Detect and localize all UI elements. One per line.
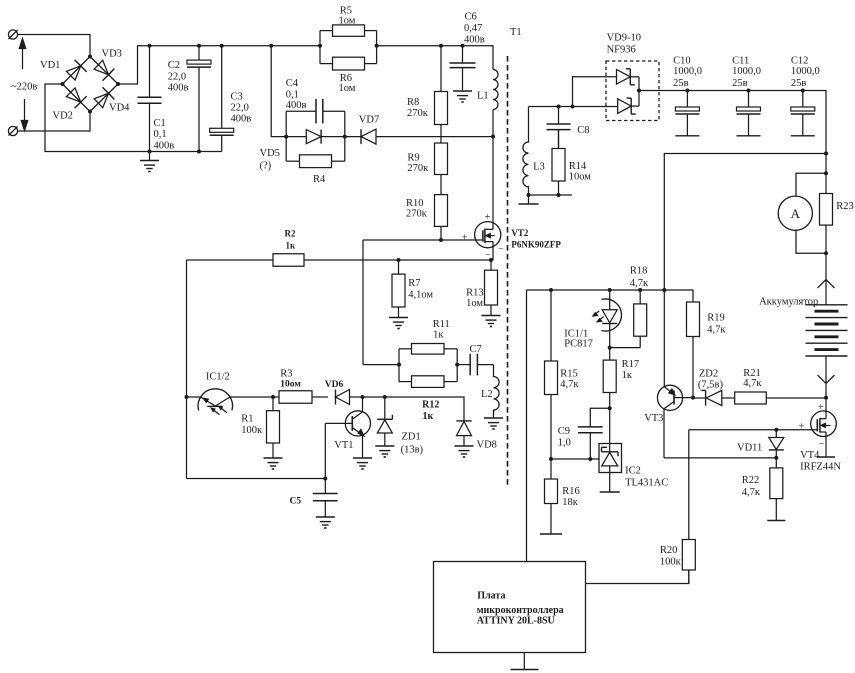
- node R10 bottom gate: [439, 238, 443, 242]
- label T1: [510, 27, 522, 38]
- svg-text:C8: C8: [577, 125, 589, 136]
- svg-text:22,0: 22,0: [231, 103, 249, 114]
- wire ZD1 node to VD8: [385, 397, 464, 421]
- label R2: [285, 229, 296, 239]
- wire L1 bottom to drain: [492, 110, 494, 223]
- svg-text:IRFZ44N: IRFZ44N: [800, 462, 841, 473]
- svg-text:R22: R22: [742, 475, 760, 486]
- node C3 top: [220, 44, 224, 48]
- svg-text:ATTINY 20L-8SU: ATTINY 20L-8SU: [477, 616, 555, 627]
- label VT2 minus source: [498, 244, 504, 255]
- resistor R15: [545, 290, 558, 459]
- ground at R1: [264, 458, 283, 470]
- node R5R6 left: [318, 44, 322, 48]
- wire secondary plus rail: [639, 91, 826, 154]
- node rail snubber tap: [269, 44, 273, 48]
- label VD7: [359, 115, 379, 126]
- resistor R7: [392, 260, 405, 317]
- node R8 top rail: [439, 44, 443, 48]
- label MCU line1: [477, 591, 505, 602]
- svg-text:400в: 400в: [168, 83, 189, 94]
- label IC1/1: [564, 329, 588, 340]
- label R8 value: [407, 108, 429, 119]
- svg-text:ZD1: ZD1: [402, 432, 421, 443]
- node bridge left: [61, 82, 65, 86]
- node L1 snubber junction: [491, 135, 495, 139]
- label C9 value: [558, 438, 571, 449]
- ammeter A: [778, 173, 826, 253]
- node meter bottom: [824, 251, 828, 255]
- svg-text:NF936: NF936: [607, 45, 636, 56]
- wire gate VT2: [363, 239, 483, 241]
- node VT1 collector: [361, 395, 365, 399]
- label MCU line2: [477, 605, 564, 616]
- node ZD1 top: [383, 395, 387, 399]
- label R1 value: [241, 425, 263, 436]
- svg-text:1к: 1к: [286, 241, 297, 251]
- svg-text:R10: R10: [406, 198, 424, 209]
- svg-text:4,7к: 4,7к: [743, 378, 762, 389]
- resistor R1: [267, 397, 280, 458]
- label R16: [562, 486, 580, 497]
- svg-text:A: A: [791, 206, 801, 221]
- label C1 value: [154, 129, 167, 140]
- label R22: [742, 475, 760, 486]
- arrow up (AC polarity): [19, 39, 25, 70]
- diode VD3: [94, 60, 114, 80]
- wire VD7 to L1 node: [376, 136, 493, 138]
- label C10: [673, 56, 691, 67]
- wire R18 bottom to LED node: [610, 347, 641, 349]
- node C12 rail: [801, 89, 805, 93]
- label C3 value: [231, 103, 249, 114]
- terminal bar L3 ground: [519, 195, 539, 204]
- svg-text:L1: L1: [477, 91, 489, 102]
- node VT2 source R13: [489, 258, 493, 262]
- label ~220v: [11, 82, 37, 93]
- svg-text:1000,0: 1000,0: [732, 66, 761, 77]
- node rail LED: [608, 288, 612, 292]
- label C11 value: [732, 66, 761, 77]
- resistor R17: [603, 348, 616, 409]
- svg-text:(13в): (13в): [401, 445, 424, 456]
- label R5 value: [339, 16, 356, 27]
- ground at L2: [484, 410, 503, 429]
- svg-text:1ом: 1ом: [466, 298, 483, 309]
- svg-text:25в: 25в: [791, 78, 807, 89]
- label C2 voltage: [168, 83, 189, 94]
- svg-text:(7,5в): (7,5в): [698, 380, 724, 391]
- wire top rail right part: [377, 46, 493, 70]
- node VD9-10 cathode: [637, 89, 641, 93]
- svg-text:T1: T1: [510, 27, 522, 38]
- svg-text:IC1/2: IC1/2: [206, 372, 230, 383]
- label R20: [660, 545, 678, 556]
- wire VT4 gate: [689, 429, 818, 431]
- label VD1: [40, 60, 60, 71]
- label R16 value: [562, 497, 579, 508]
- svg-text:C9: C9: [558, 426, 570, 437]
- optocoupler IC1/2 phototransistor: [198, 389, 232, 415]
- svg-text:C12: C12: [791, 56, 809, 67]
- wire gate corner: [362, 240, 364, 365]
- label C1 voltage: [154, 141, 175, 152]
- wire VT4 drain: [825, 398, 827, 412]
- svg-text:VT1: VT1: [334, 440, 353, 451]
- label IC1/2: [206, 372, 230, 383]
- transistor VT2 (MOSFET P6NK90ZFP): [475, 222, 501, 260]
- label VD11: [737, 443, 762, 454]
- node R1 R3: [271, 395, 275, 399]
- svg-text:R23: R23: [836, 201, 854, 212]
- bracket R11-R12 right: [456, 349, 458, 382]
- svg-text:R1: R1: [241, 414, 253, 425]
- label C6 value: [464, 23, 482, 34]
- svg-text:TL431AC: TL431AC: [625, 478, 668, 489]
- label C2 value: [168, 72, 186, 83]
- zener ZD2: [693, 390, 735, 405]
- microcontroller board box: [434, 562, 586, 653]
- svg-text:VD1: VD1: [40, 60, 60, 71]
- svg-text:R14: R14: [569, 161, 587, 172]
- svg-text:10ом: 10ом: [569, 172, 592, 183]
- label C4 voltage: [286, 100, 307, 111]
- ground at C1: [140, 152, 159, 172]
- resistor R11: [399, 344, 457, 355]
- ground at ZD1: [375, 446, 394, 458]
- wire opto to R3 node: [230, 396, 274, 398]
- capacitor C7: [457, 354, 493, 376]
- wire VT1 node to ZD1 node: [363, 396, 385, 398]
- svg-text:10ом: 10ом: [280, 380, 301, 390]
- dashed box VD9-10: [606, 61, 659, 121]
- node snubber right: [343, 135, 347, 139]
- label R20 value: [660, 557, 682, 568]
- capacitor C11: [737, 91, 761, 136]
- label VD8: [477, 440, 497, 451]
- svg-text:0,1: 0,1: [154, 129, 167, 140]
- svg-text:4,7к: 4,7к: [560, 379, 579, 390]
- label C12: [791, 56, 809, 67]
- node bridge right: [116, 82, 120, 86]
- diode VD8: [456, 421, 471, 446]
- label VD5 q: [260, 161, 272, 172]
- label C3: [231, 92, 243, 103]
- node meter top: [824, 171, 828, 175]
- resistor R13: [485, 260, 498, 315]
- label VT4: [800, 450, 820, 461]
- svg-text:1000,0: 1000,0: [791, 66, 820, 77]
- label ZD1 voltage: [401, 445, 424, 456]
- svg-text:1к: 1к: [433, 330, 444, 341]
- node C2 bottom: [197, 150, 201, 154]
- svg-text:C3: C3: [231, 92, 243, 103]
- svg-text:VT3: VT3: [644, 413, 663, 424]
- svg-text:4,1ом: 4,1ом: [408, 290, 433, 301]
- svg-text:C7: C7: [470, 344, 482, 355]
- svg-text:400в: 400в: [464, 35, 485, 46]
- svg-text:400в: 400в: [231, 114, 252, 125]
- bracket R5-R6 right: [376, 31, 378, 64]
- label VT2 type: [511, 240, 561, 250]
- svg-text:100к: 100к: [241, 425, 263, 436]
- label R21 value: [743, 378, 762, 389]
- label R11: [433, 319, 450, 330]
- AC terminal X1 (phase): [8, 30, 17, 39]
- svg-text:−: −: [819, 439, 825, 450]
- label L3: [533, 162, 545, 173]
- label VT2 minus below: [485, 250, 491, 261]
- svg-text:18к: 18к: [562, 497, 579, 508]
- capacitor C8: [547, 107, 571, 149]
- node bridge bottom: [88, 110, 92, 114]
- svg-text:L3: L3: [533, 162, 545, 173]
- resistor R16: [545, 459, 558, 534]
- svg-text:1000,0: 1000,0: [673, 66, 702, 77]
- inductor L3 (T1 secondary): [523, 107, 529, 196]
- svg-text:R17: R17: [622, 359, 640, 370]
- terminal bar R16: [540, 533, 562, 536]
- node VD11 bottom: [774, 456, 778, 460]
- label R1: [241, 414, 253, 425]
- label R10: [406, 198, 424, 209]
- optocoupler IC1/1 LED: [593, 290, 622, 348]
- label R23: [836, 201, 854, 212]
- schottky diode VD9: [617, 69, 640, 91]
- label VD6: [325, 380, 344, 390]
- AC terminal X2 (neutral): [8, 126, 17, 135]
- svg-text:R8: R8: [407, 97, 419, 108]
- diode VD5: [306, 130, 321, 144]
- node L3 bottom: [527, 193, 531, 197]
- svg-text:VT4: VT4: [800, 450, 820, 461]
- resistor R4: [286, 137, 345, 168]
- bridge frame top-right: [90, 57, 118, 85]
- resistor R22: [770, 458, 783, 520]
- ground at C6: [453, 83, 472, 103]
- label C10 voltage: [673, 78, 689, 89]
- svg-text:R20: R20: [660, 545, 678, 556]
- svg-text:VD5: VD5: [260, 148, 280, 159]
- label VD9-10: [607, 33, 641, 44]
- label R12 value: [423, 411, 434, 422]
- svg-text:R19: R19: [707, 313, 725, 324]
- wire R2 left down: [186, 260, 188, 479]
- label C9: [558, 426, 570, 437]
- svg-text:C6: C6: [465, 12, 477, 23]
- label R15 value: [560, 379, 579, 390]
- svg-text:VD6: VD6: [325, 380, 344, 390]
- wire tap up to VD9: [573, 77, 617, 107]
- svg-text:4,7к: 4,7к: [630, 278, 649, 289]
- svg-text:R16: R16: [562, 486, 580, 497]
- svg-text:(?): (?): [260, 161, 272, 172]
- node LED cathode: [608, 346, 612, 350]
- wire gate node to R11: [363, 364, 399, 366]
- svg-text:400в: 400в: [154, 141, 175, 152]
- terminal bar C10: [675, 135, 699, 137]
- node battery bottom: [824, 396, 828, 400]
- terminal bar MCU ground: [511, 669, 539, 671]
- node R7 top: [397, 258, 401, 262]
- label ZD1: [402, 432, 421, 443]
- diode VD7: [361, 129, 376, 144]
- label VD3: [102, 49, 122, 60]
- wire VT3 collector to VD11 R22: [664, 457, 776, 459]
- label R11 value: [433, 330, 444, 341]
- node R11 right: [455, 363, 459, 367]
- label R3 value: [280, 380, 301, 390]
- resistor R21: [735, 392, 827, 404]
- node snubber left: [284, 135, 288, 139]
- resistor R10: [435, 195, 448, 241]
- label C11 voltage: [732, 78, 748, 89]
- node C8 top: [557, 105, 561, 109]
- resistor R2: [187, 254, 492, 267]
- wire L3 bottom stub: [529, 194, 572, 196]
- node top diode tap: [571, 105, 575, 109]
- transistor VT1 (NPN): [325, 397, 370, 458]
- svg-text:VD3: VD3: [102, 49, 122, 60]
- node C5: [323, 477, 327, 481]
- label R7 value: [408, 290, 433, 301]
- terminal bar R22: [767, 519, 785, 522]
- svg-text:R11: R11: [433, 319, 450, 330]
- diode VD1: [66, 60, 86, 80]
- label R6 value: [339, 83, 356, 94]
- label R13: [466, 288, 484, 299]
- diode VD2: [66, 88, 86, 108]
- capacitor C5: [313, 479, 338, 517]
- wire R20 to MCU: [586, 570, 689, 584]
- svg-text:+: +: [485, 212, 491, 223]
- svg-text:1ом: 1ом: [339, 83, 356, 94]
- svg-text:1к: 1к: [622, 370, 633, 381]
- wire node to VD7: [345, 136, 361, 138]
- node R15 R16: [549, 457, 553, 461]
- svg-text:0,47: 0,47: [464, 23, 482, 34]
- terminal bar C11: [737, 135, 761, 137]
- label L1: [477, 91, 489, 102]
- label C3 voltage: [231, 114, 252, 125]
- label C5: [290, 497, 302, 507]
- svg-text:ZD2: ZD2: [699, 369, 718, 380]
- resistor R19: [687, 290, 700, 398]
- svg-text:L2: L2: [481, 389, 493, 400]
- node VT3 base: [691, 396, 695, 400]
- resistor R8: [435, 46, 448, 137]
- label R18 value: [630, 278, 649, 289]
- svg-text:Плата: Плата: [477, 591, 505, 602]
- T1 core dashed separator: [507, 56, 509, 485]
- ground at VT1: [353, 458, 372, 470]
- svg-text:VD8: VD8: [477, 440, 497, 451]
- label R4: [313, 174, 326, 185]
- svg-text:C5: C5: [290, 497, 302, 507]
- label IC2 type: [625, 478, 668, 489]
- label R6: [340, 73, 352, 84]
- svg-text:270к: 270к: [407, 163, 429, 174]
- node C9 bottom: [588, 457, 592, 461]
- wire VD6 to VT1 node: [350, 396, 363, 398]
- label R2 value: [286, 241, 297, 251]
- svg-text:микроконтроллера: микроконтроллера: [477, 605, 564, 616]
- ground at R7: [389, 317, 408, 329]
- svg-text:1ом: 1ом: [339, 16, 356, 27]
- svg-text:−: −: [498, 244, 504, 255]
- svg-text:R7: R7: [408, 278, 420, 289]
- label L2: [481, 389, 493, 400]
- label ZD2: [699, 369, 718, 380]
- resistor R23: [820, 173, 833, 253]
- inductor L2 (T1 feedback winding): [494, 365, 500, 416]
- svg-text:C1: C1: [154, 118, 166, 129]
- node R17 bottom: [608, 406, 612, 410]
- bridge frame bottom-right: [90, 84, 118, 112]
- label VT3: [644, 413, 663, 424]
- node rail feedback: [824, 152, 828, 156]
- wire R15 R16 C9 node: [551, 458, 599, 460]
- capacitor C2: [187, 46, 211, 152]
- label VD4: [109, 103, 130, 114]
- ground at R13: [482, 315, 501, 327]
- transistor VT3 (PNP): [657, 290, 693, 458]
- battery (Аккумулятор): [806, 305, 848, 356]
- terminal bar C12: [791, 135, 815, 137]
- diode VD6: [336, 390, 350, 405]
- capacitor C3: [210, 46, 234, 152]
- wire opto left: [187, 396, 202, 398]
- svg-text:Аккумулятор: Аккумулятор: [759, 297, 818, 308]
- wire MCU ground: [523, 653, 525, 670]
- label R5: [340, 6, 352, 17]
- label C11: [732, 56, 749, 67]
- svg-text:0,1: 0,1: [286, 90, 299, 101]
- wire VD5 to node: [321, 136, 345, 138]
- label C8: [577, 125, 589, 136]
- label C4 value: [286, 90, 299, 101]
- label R3: [280, 369, 292, 380]
- wire snubber left to VD5: [286, 136, 306, 138]
- capacitor C4: [286, 99, 345, 137]
- svg-text:270к: 270к: [406, 209, 428, 220]
- label R18: [630, 266, 648, 277]
- label MCU line3: [477, 616, 555, 627]
- bridge frame bottom-left: [63, 84, 91, 112]
- label R8: [407, 97, 419, 108]
- wire AC top to bridge: [18, 35, 90, 57]
- capacitor C6: [450, 46, 476, 83]
- transistor VT4 (MOSFET IRFZ44N): [811, 411, 837, 457]
- label IC1/1 type: [564, 339, 593, 350]
- capacitor C12: [791, 91, 815, 136]
- svg-text:R12: R12: [422, 400, 439, 411]
- resistor R18: [634, 290, 647, 348]
- label R9 value: [407, 163, 429, 174]
- wire L3 top to diodes: [529, 106, 618, 108]
- node R5R6 right: [375, 44, 379, 48]
- resistor R6: [320, 57, 377, 70]
- resistor R12: [399, 376, 457, 388]
- label VT1: [334, 440, 353, 451]
- resistor R9: [435, 137, 448, 195]
- svg-text:R3: R3: [280, 369, 292, 380]
- node rail R15: [549, 288, 553, 292]
- resistor R3: [273, 391, 328, 404]
- svg-text:R13: R13: [466, 288, 484, 299]
- wire battery top with arrow: [818, 253, 835, 304]
- label C12 value: [791, 66, 820, 77]
